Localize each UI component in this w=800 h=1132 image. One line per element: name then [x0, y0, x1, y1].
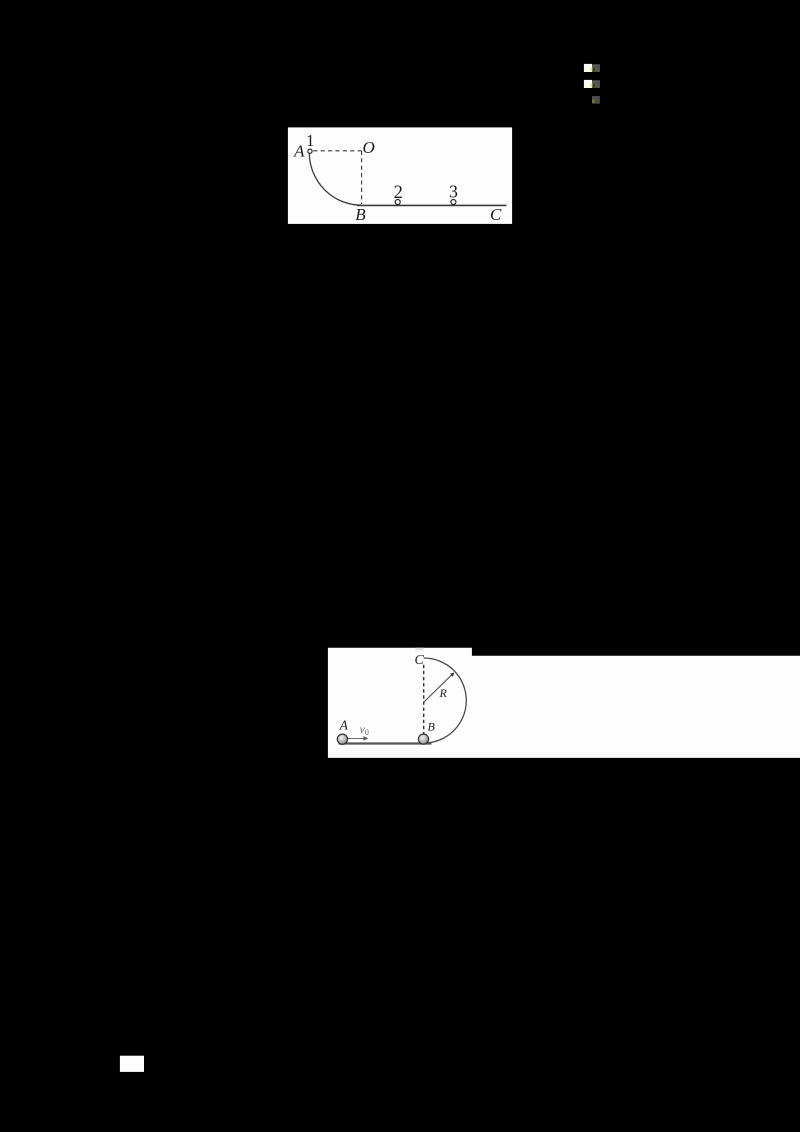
- track line A to B: [339, 742, 432, 744]
- top-right mark row 3: olive tick: [592, 100, 595, 103]
- svg-text:1: 1: [306, 131, 314, 150]
- svg-text:B: B: [355, 205, 366, 224]
- ball A: [337, 734, 347, 744]
- svg-text:3: 3: [449, 182, 458, 202]
- top-right mark row 1: yellow tick: [590, 67, 592, 71]
- top-right mark row 2: white square: [584, 80, 592, 88]
- radius arrow R: [424, 675, 452, 702]
- v0 arrow: [348, 737, 365, 739]
- quarter-circle curve A to B: [309, 153, 361, 206]
- faint top smudge near C: [416, 648, 425, 651]
- svg-text:C: C: [490, 205, 502, 224]
- ball B: [418, 734, 428, 744]
- svg-text:A: A: [339, 717, 349, 732]
- top-right mark row 3: gray square: [592, 96, 600, 104]
- horizontal track line B to C: [357, 204, 507, 206]
- panel 1 white background: [288, 127, 512, 223]
- svg-text:B: B: [428, 720, 436, 734]
- top-right mark row 1: gray square: [592, 64, 600, 72]
- svg-text:C: C: [415, 653, 425, 668]
- loop circle arc (right semicircle C to B): [424, 658, 467, 743]
- dashed line A to O: [313, 150, 361, 152]
- svg-text:O: O: [362, 138, 374, 157]
- svg-text:A: A: [293, 142, 305, 161]
- bottom-left white rectangle: [120, 1056, 144, 1072]
- top-right mark row 2: yellow tick: [590, 83, 592, 87]
- ball ring 1 at A: [308, 149, 312, 153]
- dashed line O to B: [361, 151, 363, 204]
- dashed diameter line C to B: [423, 665, 425, 734]
- top-right mark row 1: white square: [584, 64, 592, 72]
- svg-text:0: 0: [365, 728, 369, 737]
- top-right mark row 2: gray square: [592, 80, 600, 88]
- radius arrowhead: [450, 673, 454, 677]
- svg-text:R: R: [439, 686, 448, 700]
- ball ring 2: [395, 200, 400, 205]
- svg-text:2: 2: [394, 183, 403, 203]
- panel 2 white background (L-shape, wide raw-RGB extent): [328, 648, 800, 758]
- ball ring 3: [451, 200, 456, 205]
